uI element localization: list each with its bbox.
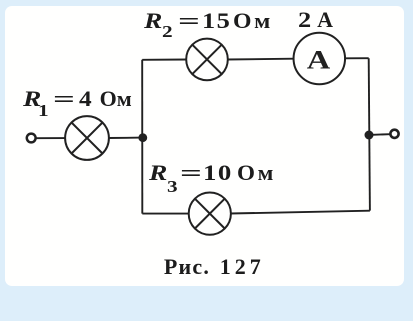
svg-text:А: А [307, 46, 331, 74]
wire: top branch left segment to lamp R2 [142, 59, 187, 61]
terminal left [27, 134, 36, 143]
lamp R3 [189, 193, 231, 235]
wire: right rail vertical [369, 58, 370, 210]
wire: node B to right terminal [369, 133, 390, 136]
label R3 = 10 Ом [149, 162, 167, 184]
caption Рис. 127 [164, 256, 210, 278]
label R1 = 4 Ом [23, 88, 41, 110]
wire: left rail vertical [141, 60, 143, 214]
label 2 A (ammeter current) [298, 9, 311, 31]
lamp R2 [186, 39, 228, 81]
node B junction dot [365, 131, 374, 140]
lamp R1 [65, 116, 109, 160]
ammeter U1 [294, 33, 346, 85]
wire: lamp R2 to ammeter [227, 58, 294, 61]
wire: bottom branch left segment to lamp R3 [142, 213, 189, 215]
node A junction dot [138, 133, 147, 142]
wire: ammeter to right rail [345, 57, 369, 59]
label R2 = 15 Ом [144, 10, 162, 32]
terminal right [390, 130, 398, 138]
wire: lamp R3 to right rail [230, 211, 370, 214]
wire: lamp R1 to node A [108, 137, 142, 139]
wire: left terminal to lamp R1 [36, 137, 67, 139]
ammeter letter A [307, 46, 331, 74]
